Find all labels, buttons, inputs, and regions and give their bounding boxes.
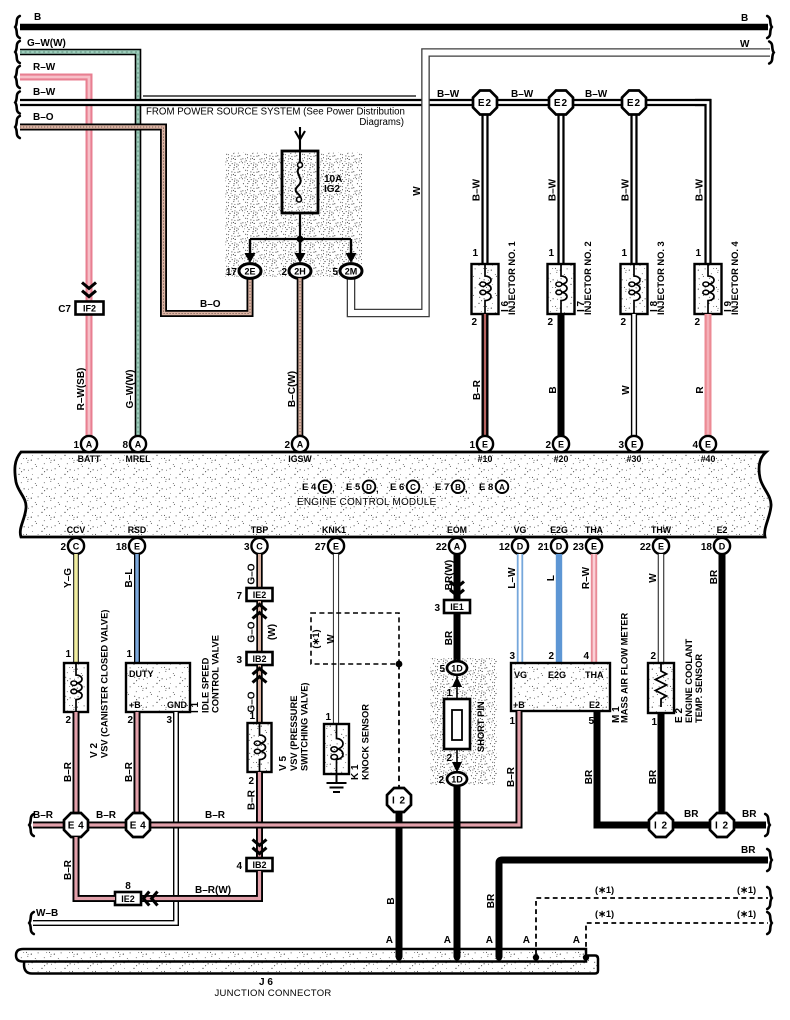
injector I7 box [548, 264, 575, 314]
svg-text:B: B [34, 12, 41, 23]
svg-text:2: 2 [127, 715, 133, 726]
svg-text:E2: E2 [554, 98, 568, 109]
svg-text:B: B [455, 483, 461, 492]
svg-text:B: B [386, 897, 397, 904]
svg-text:5: 5 [439, 664, 445, 675]
svg-text:1D: 1D [451, 664, 463, 674]
connector 1D upper [447, 661, 467, 675]
junction dot EOM [454, 954, 460, 960]
svg-text:B–W: B–W [472, 178, 483, 201]
svg-text:MREL: MREL [126, 454, 152, 464]
svg-text:B–L: B–L [124, 569, 135, 588]
wire L from E2G [556, 554, 562, 663]
svg-text:(∗1): (∗1) [737, 909, 756, 919]
svg-text:E: E [658, 542, 664, 552]
svg-text:#10: #10 [478, 454, 493, 464]
wire R injector4 to ECM #40 [705, 314, 712, 436]
node B-R bus brace [29, 814, 34, 836]
svg-text:+B: +B [513, 700, 525, 710]
fuse block stipple area [225, 152, 362, 277]
svg-text:Diagrams): Diagrams) [359, 117, 404, 128]
svg-text:2: 2 [281, 267, 287, 278]
node B left brace [15, 16, 20, 38]
wire B injector2 to ECM #20 [558, 314, 565, 436]
svg-text:IB2: IB2 [252, 860, 266, 870]
svg-text:1D: 1D [451, 775, 463, 785]
svg-text:27: 27 [315, 542, 327, 553]
svg-text:1: 1 [472, 248, 478, 259]
svg-text:D: D [719, 542, 726, 552]
svg-text:+B: +B [129, 700, 141, 710]
svg-text:Y–G: Y–G [63, 568, 74, 588]
svg-text:C: C [410, 483, 416, 492]
wire W-B from I1 GND to left edge [33, 712, 176, 923]
svg-text:EOM: EOM [447, 525, 467, 535]
note FROM POWER SOURCE SYSTEM [143, 95, 416, 97]
connector 2E [239, 264, 261, 279]
node chevrons on R-W [82, 283, 96, 297]
svg-text:G–O: G–O [247, 563, 258, 584]
svg-text:22: 22 [640, 542, 652, 553]
wire G-O TBP upper [256, 554, 262, 588]
wire B-W drop injector4 with bus corner [695, 103, 708, 265]
wire G-O TBP middle [256, 601, 262, 652]
svg-text:BR: BR [444, 630, 455, 645]
wire R-W from THA [591, 554, 597, 663]
svg-text:,: , [376, 484, 379, 495]
svg-text:C: C [256, 542, 263, 552]
node chevrons up 2 [253, 668, 267, 682]
svg-text:E2: E2 [589, 700, 600, 710]
svg-text:2: 2 [65, 715, 71, 726]
wire W from THW [658, 554, 665, 663]
connector #30 3(E) [626, 436, 642, 452]
svg-text:B–C(W): B–C(W) [287, 371, 298, 407]
svg-text:3: 3 [236, 655, 242, 666]
svg-text:B–R: B–R [247, 789, 258, 810]
svg-text:E 4: E 4 [130, 821, 147, 832]
svg-text:INJECTOR NO. 1: INJECTOR NO. 1 [507, 241, 517, 315]
node chevrons up 1 [253, 604, 267, 618]
connector C7 IF2 [76, 302, 104, 315]
connector E2 a [473, 91, 497, 115]
node fuse branch junction [297, 236, 304, 243]
node arrow into 2H [295, 239, 306, 263]
wire BR bus lower to junction [499, 860, 768, 955]
svg-text:23: 23 [573, 542, 585, 553]
svg-text:B–R: B–R [96, 810, 117, 821]
injector I8 box [621, 264, 648, 314]
sensor K1 knock sensor [324, 724, 349, 774]
junction connector lower strip [24, 956, 598, 974]
wire W from right bus to connector 2M [351, 53, 770, 314]
svg-text:B–W: B–W [511, 89, 534, 100]
svg-text:B–W: B–W [585, 89, 608, 100]
node arrow into fuse [295, 131, 305, 140]
svg-text:ENGINE CONTROL MODULE: ENGINE CONTROL MODULE [297, 497, 437, 508]
node B-W left brace [15, 92, 20, 114]
svg-text:2: 2 [248, 776, 254, 787]
injector I9 box [695, 264, 722, 314]
svg-text:R–W(SB): R–W(SB) [76, 368, 87, 411]
svg-text:BR: BR [742, 809, 757, 820]
svg-text:B–O: B–O [200, 299, 221, 310]
svg-text:JUNCTION CONNECTOR: JUNCTION CONNECTOR [214, 988, 331, 999]
svg-text:VSV (CANISTER CLOSED VALVE): VSV (CANISTER CLOSED VALVE) [100, 610, 110, 758]
ECM module band [15, 452, 771, 537]
wire BR(W) from EOM [454, 554, 461, 600]
svg-text:IE1: IE1 [450, 602, 464, 612]
svg-text:3: 3 [618, 440, 624, 451]
svg-text:B–W: B–W [437, 89, 460, 100]
connector IB2 3 [247, 652, 273, 665]
svg-text:1: 1 [325, 712, 331, 723]
node chevrons down into IE1 [450, 582, 464, 596]
svg-text:B–R: B–R [506, 766, 517, 787]
svg-text:2: 2 [620, 317, 626, 328]
svg-text:2: 2 [471, 317, 477, 328]
svg-text:IB2: IB2 [252, 654, 266, 664]
svg-text:B: B [741, 13, 748, 24]
svg-text:THA: THA [585, 525, 604, 535]
node BR lower brace [767, 849, 772, 871]
svg-text:1: 1 [249, 711, 255, 722]
svg-text:E2: E2 [717, 525, 728, 535]
svg-text:2: 2 [548, 651, 554, 662]
connector 2M [340, 264, 362, 279]
svg-text:J 6: J 6 [259, 977, 273, 988]
node R-W left brace [15, 66, 20, 88]
connector IGSW 2(A) [292, 436, 308, 452]
svg-text:2: 2 [547, 317, 553, 328]
svg-text:VSV (PRESSURE: VSV (PRESSURE [289, 696, 299, 771]
svg-text:IF2: IF2 [83, 304, 96, 314]
connector E2 c [622, 91, 646, 115]
svg-text:B–R: B–R [472, 379, 483, 400]
wire B-W bus [20, 99, 711, 106]
wire B-W drop injector2 [557, 103, 564, 264]
svg-text:E2G: E2G [548, 670, 566, 680]
svg-text:I 2: I 2 [715, 821, 729, 832]
wire G-W(W) bus to MREL [20, 52, 138, 436]
connector #40 4(E) [700, 436, 716, 452]
connector IE2 7 [247, 588, 273, 601]
connector I2 octagon a [649, 813, 673, 837]
svg-text:B–R: B–R [63, 761, 74, 782]
svg-text:V 2: V 2 [89, 743, 100, 758]
wire B-R from V5 down to IB2 [256, 772, 263, 858]
connector IE2 8 [115, 892, 141, 905]
svg-text:CONTROL VALVE: CONTROL VALVE [211, 635, 221, 713]
svg-text:A: A [523, 935, 530, 946]
svg-text:1: 1 [65, 649, 71, 660]
svg-text:(∗1): (∗1) [595, 885, 614, 895]
wire B-O(W) from 2H to IGSW [297, 278, 304, 436]
valve I1 idle speed control [126, 663, 190, 712]
svg-text:E: E [482, 440, 488, 450]
svg-text:INJECTOR NO. 3: INJECTOR NO. 3 [656, 241, 666, 315]
svg-text:2: 2 [694, 317, 700, 328]
svg-text:1: 1 [126, 649, 132, 660]
svg-text:7: 7 [236, 591, 242, 602]
svg-text:IDLE SPEED: IDLE SPEED [201, 657, 211, 713]
svg-text:G–W(W): G–W(W) [125, 370, 136, 409]
svg-text:TBP: TBP [251, 525, 269, 535]
svg-text:R: R [695, 386, 706, 394]
svg-text:E: E [558, 440, 564, 450]
svg-text:1: 1 [651, 717, 657, 728]
svg-text:,: , [420, 484, 423, 495]
svg-text:E 8: E 8 [479, 482, 493, 493]
svg-text:INJECTOR NO. 4: INJECTOR NO. 4 [730, 240, 740, 315]
wire BR from IE1 to 1D [454, 613, 461, 662]
junction dot BR [496, 954, 502, 960]
junction connector upper strip [16, 949, 586, 962]
wire Y-G from CCV to V2 [73, 554, 79, 663]
svg-text:2: 2 [650, 651, 656, 662]
svg-text:2: 2 [545, 440, 551, 451]
wire B-O bus to connector 2E [20, 127, 250, 314]
svg-text:2H: 2H [294, 267, 306, 277]
svg-text:E 4: E 4 [302, 482, 317, 493]
svg-text:E: E [333, 542, 339, 552]
node G-W(W) left brace [15, 41, 20, 63]
svg-text:E2: E2 [627, 98, 641, 109]
svg-text:BATT: BATT [78, 454, 101, 464]
svg-text:3: 3 [434, 603, 440, 614]
svg-text:E: E [705, 440, 711, 450]
connector BATT 1(A) [81, 436, 97, 452]
svg-text:I 2: I 2 [654, 821, 668, 832]
svg-text:B: B [548, 386, 559, 393]
node arrow into 2E [245, 239, 256, 263]
svg-text:8: 8 [125, 881, 131, 892]
wire B-L from RSD to I1 [134, 554, 140, 663]
svg-text:#20: #20 [554, 454, 569, 464]
svg-text:RSD: RSD [128, 525, 147, 535]
svg-text:A: A [297, 440, 304, 450]
injector I6 box [472, 264, 499, 314]
connector E4 octagon a [64, 813, 88, 837]
node shield junction dot [396, 661, 403, 668]
svg-text:B–O: B–O [33, 112, 54, 123]
svg-text:L–W: L–W [507, 567, 518, 589]
junction dot dash2 [583, 954, 589, 960]
wire dashed (*1) upper [536, 898, 768, 955]
svg-text:VG: VG [514, 670, 527, 680]
svg-text:1: 1 [548, 248, 554, 259]
svg-text:W: W [648, 573, 659, 583]
wire B-W drop injector1 [481, 103, 488, 264]
short pin stipple area [430, 658, 497, 785]
wire BR from 1D to junction [454, 786, 461, 955]
wire B top bus [20, 24, 768, 30]
svg-text:E 6: E 6 [390, 482, 404, 493]
svg-text:A: A [135, 440, 142, 450]
svg-text:1: 1 [469, 440, 475, 451]
svg-text:E 5: E 5 [346, 482, 361, 493]
svg-text:THW: THW [651, 525, 672, 535]
svg-text:C: C [73, 542, 80, 552]
wire W knock sensor [333, 554, 339, 724]
svg-text:A: A [386, 935, 393, 946]
node (*1) upper brace [767, 887, 772, 909]
svg-text:GND: GND [167, 700, 188, 710]
svg-text:A: A [454, 542, 461, 552]
svg-text:IE2: IE2 [253, 590, 267, 600]
svg-text:(∗1): (∗1) [595, 909, 614, 919]
svg-text:W–B: W–B [36, 908, 58, 919]
svg-text:W: W [412, 186, 423, 196]
junction dot B [396, 954, 402, 960]
svg-text:1: 1 [509, 716, 515, 727]
wire dashed (*1) lower [586, 923, 768, 955]
svg-text:A: A [444, 935, 451, 946]
node B right brace [767, 16, 772, 38]
svg-text:18: 18 [701, 542, 713, 553]
connector 2H [289, 264, 311, 279]
svg-text:5: 5 [332, 267, 338, 278]
svg-text:FROM POWER SOURCE SYSTEM (See: FROM POWER SOURCE SYSTEM (See Power Dist… [146, 107, 405, 118]
svg-text:2M: 2M [345, 267, 358, 277]
svg-text:BR: BR [584, 769, 595, 784]
wire B-R from E4a down to IE2 [76, 837, 115, 899]
svg-text:D: D [517, 542, 524, 552]
node BR right brace [765, 814, 770, 836]
node (*1) lower brace [767, 912, 772, 934]
svg-text:MASS AIR FLOW METER: MASS AIR FLOW METER [620, 613, 630, 723]
svg-text:BR: BR [709, 569, 720, 584]
connector E4 octagon b [126, 813, 150, 837]
svg-text:4: 4 [236, 861, 242, 872]
svg-text:3: 3 [166, 715, 172, 726]
svg-text:TEMP. SENSOR: TEMP. SENSOR [694, 654, 704, 723]
svg-text:3: 3 [244, 542, 250, 553]
node arrow into 2M [346, 239, 357, 263]
wire B from I2 to junction [396, 812, 403, 955]
svg-text:4: 4 [692, 440, 698, 451]
svg-text:ENGINE COOLANT: ENGINE COOLANT [684, 638, 694, 723]
wire B-R from I1 +B to E4 [134, 712, 141, 813]
connector I2 octagon b [710, 813, 734, 837]
svg-text:12: 12 [499, 542, 511, 553]
svg-text:(∗1): (∗1) [737, 885, 756, 895]
node W right brace [769, 42, 774, 64]
svg-text:#40: #40 [701, 454, 716, 464]
wire shield dashed to I2 [398, 664, 400, 788]
svg-text:IGSW: IGSW [288, 454, 312, 464]
svg-text:B–W: B–W [33, 87, 56, 98]
wire L-W from VG [517, 554, 523, 663]
svg-text:3: 3 [509, 651, 515, 662]
sensor E2 engine coolant temp [648, 663, 674, 713]
svg-text:R–W: R–W [581, 566, 592, 589]
svg-text:1: 1 [446, 688, 452, 699]
node chevrons left into IE2 [143, 892, 157, 906]
wire B-R from V2 to E4 [73, 712, 80, 813]
svg-text:17: 17 [226, 267, 238, 278]
svg-text:,: , [332, 484, 335, 495]
wire BR between I2 octagons [673, 822, 710, 829]
svg-text:B–R: B–R [63, 859, 74, 880]
svg-text:E2: E2 [478, 98, 492, 109]
svg-text:K 1: K 1 [350, 764, 361, 780]
svg-text:I 2: I 2 [392, 796, 406, 807]
svg-text:DUTY: DUTY [129, 669, 154, 679]
svg-text:BR: BR [741, 845, 756, 856]
svg-text:B–R: B–R [205, 810, 226, 821]
node chevrons down into IB2 [253, 840, 267, 854]
svg-text:1: 1 [73, 440, 79, 451]
connector E2 b [549, 91, 573, 115]
svg-text:SHORT PIN: SHORT PIN [476, 701, 486, 752]
svg-text:INJECTOR NO. 2: INJECTOR NO. 2 [583, 241, 593, 315]
wire BR from M1 E2 to I2 [597, 711, 648, 825]
component short pin [444, 699, 470, 749]
svg-text:18: 18 [116, 542, 128, 553]
svg-text:#30: #30 [627, 454, 642, 464]
svg-text:E 4: E 4 [68, 821, 85, 832]
svg-text:SWITCHING VALVE): SWITCHING VALVE) [300, 683, 310, 772]
svg-text:V 5: V 5 [278, 756, 289, 771]
valve V2 VSV canister closed [64, 663, 88, 713]
svg-text:A: A [499, 483, 505, 492]
svg-text:E 7: E 7 [435, 482, 449, 493]
wire R-W bus down to C7 [20, 77, 89, 436]
connector 1D lower [447, 772, 467, 786]
svg-text:1: 1 [695, 248, 701, 259]
wire B-R bus from M1 +B to left edge [33, 711, 519, 825]
svg-text:B–R: B–R [124, 761, 135, 782]
svg-text:2: 2 [438, 775, 444, 786]
svg-text:G–O: G–O [247, 691, 258, 712]
wire B-R(W) from IB2 to IE2 [141, 871, 260, 899]
connector IE1 3 [444, 600, 470, 613]
svg-text:E: E [134, 542, 140, 552]
svg-text:22: 22 [436, 542, 448, 553]
svg-text:A: A [86, 440, 93, 450]
svg-text:D: D [556, 542, 563, 552]
svg-text:KNOCK SENSOR: KNOCK SENSOR [361, 704, 371, 780]
svg-text:2: 2 [446, 753, 452, 764]
svg-text:E: E [591, 542, 597, 552]
svg-text:IE2: IE2 [121, 894, 135, 904]
svg-text:BR: BR [486, 893, 497, 908]
wire BR from sensor to I2 [658, 713, 665, 813]
svg-text:W: W [740, 39, 750, 50]
wire fuse output branch [299, 213, 301, 239]
svg-text:BR: BR [684, 809, 699, 820]
node W-B brace [29, 912, 34, 934]
svg-text:(∗1): (∗1) [311, 629, 321, 648]
meter M1 mass air flow box [511, 663, 610, 711]
valve V5 VSV pressure switching [248, 723, 272, 773]
svg-text:2E: 2E [244, 267, 255, 277]
svg-text:21: 21 [538, 542, 550, 553]
shield dashed box (*1) [311, 613, 399, 664]
svg-text:A: A [486, 935, 493, 946]
svg-text:I 1: I 1 [190, 701, 201, 713]
node arrow up into 1D upper [456, 675, 458, 699]
svg-text:KNK1: KNK1 [322, 525, 346, 535]
wire BR right of I2b [734, 822, 766, 829]
wire B-R injector1 to ECM #10 [482, 314, 489, 436]
svg-text:2: 2 [284, 440, 290, 451]
svg-text:BR: BR [648, 769, 659, 784]
node B-O left brace [15, 116, 20, 138]
svg-text:CCV: CCV [67, 525, 86, 535]
connector #20 2(E) [553, 436, 569, 452]
